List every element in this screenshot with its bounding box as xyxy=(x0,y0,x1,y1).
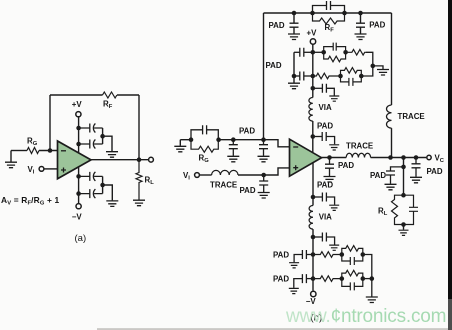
svg-text:RG: RG xyxy=(27,137,38,148)
node top PAD left xyxy=(292,11,297,16)
wire +V supply xyxy=(78,117,80,153)
ground PAD minus 1 xyxy=(227,156,239,162)
wire feedback top xyxy=(50,94,139,96)
resistor RC box4 xyxy=(342,270,363,278)
ground PAD top-left xyxy=(288,34,300,40)
wire output row xyxy=(322,157,427,159)
svg-text:RL: RL xyxy=(145,175,155,186)
resistor -V row2 xyxy=(313,276,342,282)
wire RL column upper xyxy=(403,158,405,196)
capacitor RC box3 xyxy=(342,255,363,266)
resistor +V row1 xyxy=(346,50,366,56)
wire right rail to ground xyxy=(371,279,373,297)
node PAD minus 1 xyxy=(231,137,236,142)
terminal -V (b) xyxy=(311,291,316,296)
wire row2 to join xyxy=(361,66,373,76)
svg-text:PAD: PAD xyxy=(269,21,285,30)
resistor RL (a) xyxy=(136,160,142,200)
ground PAD VC xyxy=(410,177,422,183)
svg-text:VIA: VIA xyxy=(319,103,332,112)
capacitor RC box2 xyxy=(341,76,362,86)
wire -V supply xyxy=(78,167,80,203)
capacitor RC box4 xyxy=(342,279,363,291)
node RL top xyxy=(401,193,406,198)
svg-text:PAD: PAD xyxy=(317,180,333,189)
svg-text:PAD: PAD xyxy=(266,61,282,70)
inductor TRACE input xyxy=(212,170,238,175)
wire -V caps junction xyxy=(102,176,104,193)
node +V row2 xyxy=(311,74,316,79)
terminal VI (a) xyxy=(39,167,44,172)
wire row1 to right rail xyxy=(363,255,372,279)
inductor VIA bottom xyxy=(309,206,313,230)
wire feedback left vertical xyxy=(49,95,51,151)
resistor RL (b) xyxy=(392,195,404,224)
capacitor PAD output xyxy=(325,158,334,177)
wire output (a) xyxy=(91,159,149,161)
capacitor PAD minus 1 xyxy=(229,140,238,156)
resistor RG (b) xyxy=(191,140,218,153)
capacitor -V bypass 2 xyxy=(79,189,103,198)
wire +V supply column xyxy=(312,44,314,97)
capacitor PAD op-amp bottom xyxy=(313,193,335,205)
svg-text:−V: −V xyxy=(306,297,317,306)
svg-text:RL: RL xyxy=(378,206,388,217)
capacitor PAD top-right xyxy=(356,13,365,34)
border right bar xyxy=(448,0,452,299)
ground PAD op-amp top xyxy=(329,145,339,150)
capacitor PAD -V row2 xyxy=(294,274,313,288)
node RC box2 right xyxy=(359,74,364,79)
node RL pad branch xyxy=(401,165,406,170)
wire +V caps junction xyxy=(102,128,104,144)
node PAD minus 2 xyxy=(261,137,266,142)
ground PAD minus 2 xyxy=(258,156,270,162)
node RC box2 left xyxy=(338,74,343,79)
node RC box3 right xyxy=(361,252,366,257)
ground PAD -V row2 xyxy=(289,288,299,293)
svg-text:+V: +V xyxy=(72,100,83,109)
plus sign U1 xyxy=(61,168,66,173)
capacitor PAD +V row1 xyxy=(294,48,313,57)
resistor -V row1 xyxy=(313,252,342,258)
ground +V network xyxy=(377,70,389,76)
capacitor PAD minus 2 xyxy=(259,140,268,156)
ground (b) input xyxy=(174,140,186,152)
ground RL (b) xyxy=(399,230,409,235)
ground +V row3 xyxy=(329,96,339,101)
ground PAD output xyxy=(324,177,336,183)
node output pad xyxy=(327,155,332,160)
svg-text:VC: VC xyxy=(435,153,445,164)
minus sign U2 xyxy=(293,146,298,148)
wire join to ground xyxy=(373,66,383,69)
svg-text:PAD: PAD xyxy=(317,121,333,130)
op-amp U1 xyxy=(58,141,92,179)
node RG box left xyxy=(189,137,194,142)
wire +V left pad bar xyxy=(293,52,295,76)
svg-text:PAD: PAD xyxy=(370,171,386,180)
ground PAD top-right xyxy=(355,34,367,40)
node -V caps junction xyxy=(100,183,105,188)
node -V row1 xyxy=(311,252,316,257)
node PAD op-amp bottom xyxy=(311,195,316,200)
ground PAD via bottom xyxy=(329,245,339,250)
capacitor PAD plus xyxy=(259,175,268,192)
terminal VI (b) xyxy=(195,173,200,178)
capacitor PAD via bottom xyxy=(313,233,335,245)
wire jog to minus input xyxy=(264,140,290,147)
node +V cap2 xyxy=(76,142,81,147)
capacitor RC box1 xyxy=(324,43,346,53)
node right rail row2 xyxy=(370,276,375,281)
plus sign U2 xyxy=(293,165,298,170)
svg-text:PAD: PAD xyxy=(239,127,255,136)
wire VI to plus input xyxy=(44,168,58,170)
node PAD op-amp top xyxy=(311,134,316,139)
ground -V caps xyxy=(106,201,118,207)
node -V cap2 xyxy=(76,191,81,196)
node +V row3 xyxy=(311,86,316,91)
node RL bottom xyxy=(401,222,406,227)
ground PAD op-amp bottom xyxy=(329,205,339,210)
node PAD via bottom xyxy=(311,235,316,240)
node +V caps junction xyxy=(100,134,105,139)
node +V cap1 xyxy=(76,126,81,131)
wire row2 to right rail xyxy=(363,278,372,280)
node PAD VC xyxy=(414,155,419,160)
svg-text:RG: RG xyxy=(199,154,210,165)
wire trace to plus pad xyxy=(238,174,264,176)
capacitor PAD RL xyxy=(386,167,404,184)
svg-text:TRACE: TRACE xyxy=(346,142,373,151)
capacitor PAD -V row1 xyxy=(294,250,313,262)
inductor TRACE output xyxy=(346,153,370,157)
svg-text:PAD: PAD xyxy=(338,161,354,170)
capacitor RG parallel xyxy=(191,125,218,140)
node RF right xyxy=(342,11,347,16)
svg-text:PAD: PAD xyxy=(273,250,289,259)
resistor RG xyxy=(27,148,39,154)
svg-text:VI: VI xyxy=(28,165,35,176)
wire to +V cap ground xyxy=(103,136,112,151)
wire RL to ground xyxy=(403,225,405,230)
ground +V caps xyxy=(106,152,118,158)
node output (a) xyxy=(137,157,142,162)
resistor RC box3 xyxy=(342,246,363,255)
svg-text:PAD: PAD xyxy=(369,21,385,30)
wire right rail lower xyxy=(391,128,393,157)
resistor RF (b) xyxy=(313,13,345,24)
svg-text:(a): (a) xyxy=(75,233,87,244)
terminal +V (a) xyxy=(76,112,81,117)
resistor RC box2 xyxy=(341,68,362,76)
minus sign U1 xyxy=(61,150,66,152)
node RC box3 left xyxy=(340,252,345,257)
node PAD plus xyxy=(261,173,266,178)
ground (a) input xyxy=(5,151,17,168)
node RC box4 left xyxy=(340,276,345,281)
node RC box1 left xyxy=(321,50,326,55)
terminal VC xyxy=(427,155,431,159)
svg-text:VI: VI xyxy=(183,171,190,182)
node +V left pad xyxy=(292,74,297,79)
wire left pad to ground xyxy=(293,76,295,83)
capacitor RF parallel xyxy=(313,1,345,13)
svg-text:TRACE: TRACE xyxy=(398,112,425,121)
capacitor RL parallel xyxy=(404,195,419,224)
node -V cap1 xyxy=(76,174,81,179)
op-amp U2 xyxy=(290,139,322,176)
ground PAD RL xyxy=(385,184,397,190)
node -V row2 xyxy=(311,276,316,281)
svg-text:VIA: VIA xyxy=(319,212,332,221)
node RC box4 right xyxy=(361,276,366,281)
ground RL (a) xyxy=(133,200,145,206)
ground PAD plus xyxy=(258,193,270,199)
terminal output (a) xyxy=(149,157,154,162)
capacitor PAD op-amp top xyxy=(313,132,335,144)
svg-text:AV = RF/RG + 1: AV = RF/RG + 1 xyxy=(1,195,59,207)
wire VI to trace xyxy=(200,174,212,176)
ground +V left pad xyxy=(288,83,300,89)
svg-text:RF: RF xyxy=(103,100,113,111)
svg-text:PAD: PAD xyxy=(240,186,256,195)
capacitor PAD top-left xyxy=(290,13,299,34)
svg-text:www.¢ntronics.com: www.¢ntronics.com xyxy=(285,306,446,327)
ground PAD -V row1 xyxy=(289,263,299,268)
svg-text:PAD: PAD xyxy=(273,274,289,283)
svg-text:−V: −V xyxy=(72,212,83,221)
wire op-amp to -V column xyxy=(312,162,314,290)
wire to -V cap ground xyxy=(103,185,113,200)
node RL branch xyxy=(401,155,406,160)
resistor RF (a) xyxy=(103,92,117,98)
capacitor -V bypass 1 xyxy=(79,172,103,181)
wire feedback right vertical xyxy=(138,95,140,160)
node summing (a) xyxy=(48,148,53,153)
capacitor +V bypass 1 xyxy=(79,124,103,133)
resistor +V row2 xyxy=(313,73,341,79)
node +V row1 xyxy=(311,50,316,55)
capacitor PAD +V row2 xyxy=(294,72,313,81)
wire RG to pads xyxy=(218,139,263,141)
wire row1 to RC box xyxy=(313,51,324,53)
terminal +V (b) xyxy=(310,39,315,44)
wire input to RG xyxy=(11,150,27,152)
svg-text:+V: +V xyxy=(307,29,318,38)
node +V right join xyxy=(371,64,376,69)
ground -V network xyxy=(366,297,378,303)
wire VIA to op-amp xyxy=(312,121,314,153)
inductor TRACE right rail xyxy=(387,105,392,128)
svg-text:TRACE: TRACE xyxy=(210,180,237,189)
wire RG to op-amp xyxy=(39,150,58,152)
terminal -V (a) xyxy=(76,204,81,209)
node RG box right xyxy=(216,137,221,142)
wire left rail xyxy=(263,13,265,140)
inductor VIA top xyxy=(309,98,313,122)
wire top feedback rail xyxy=(264,12,392,14)
wire input ground to RG xyxy=(180,139,191,141)
node top PAD right xyxy=(358,11,363,16)
wire right rail upper xyxy=(391,13,393,105)
wire jog to plus input xyxy=(264,168,290,175)
capacitor PAD VC xyxy=(412,158,421,177)
node RF left xyxy=(310,11,315,16)
svg-text:RF: RF xyxy=(325,23,335,34)
wire row1 to right node xyxy=(366,52,373,66)
node feedback join xyxy=(388,155,393,160)
svg-text:PAD: PAD xyxy=(427,167,443,176)
node RC box1 right xyxy=(343,50,348,55)
capacitor +V bypass 2 xyxy=(79,140,103,149)
capacitor PAD +V row3 xyxy=(313,84,335,96)
resistor RC box1 xyxy=(324,52,346,62)
border bottom line xyxy=(97,328,452,329)
